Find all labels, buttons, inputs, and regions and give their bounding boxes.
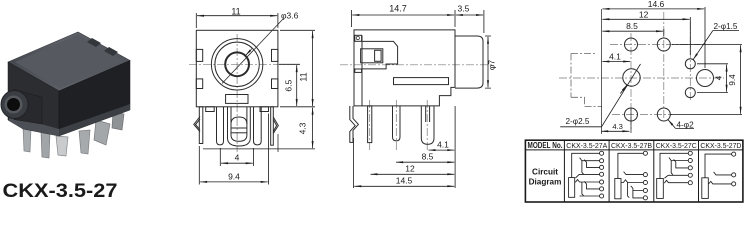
front body square xyxy=(196,30,278,107)
hole bottom-mid phi2 xyxy=(657,108,670,121)
svg-text:9.4: 9.4 xyxy=(228,171,240,181)
riser wire A xyxy=(572,153,600,177)
hole circle d3.6 xyxy=(225,52,249,76)
wavy clip xyxy=(350,106,359,142)
svg-text:CKX-3.5-27C: CKX-3.5-27C xyxy=(656,141,698,150)
wire B3 with contact xyxy=(621,180,643,183)
ext lines 9.4 dim xyxy=(670,45,742,115)
center pin tip arc xyxy=(231,117,247,124)
jack body C xyxy=(657,179,664,199)
center pin line 1 xyxy=(231,127,247,129)
centerline col2 xyxy=(663,12,665,120)
svg-text:14.5: 14.5 xyxy=(396,175,413,185)
side pin B xyxy=(393,106,401,141)
dim line 11 right xyxy=(312,31,314,106)
centerline row bottom xyxy=(612,114,672,116)
wire A5 with contact xyxy=(575,180,599,183)
circuit diagram B xyxy=(615,151,648,200)
photo base strip right xyxy=(59,104,130,136)
svg-text:CKX-3.5-27D: CKX-3.5-27D xyxy=(700,141,741,150)
right ext line xyxy=(454,106,456,188)
side view dimensions xyxy=(352,4,497,188)
top-left notch xyxy=(355,35,362,41)
riser wire B xyxy=(618,153,643,178)
svg-text:Circuit: Circuit xyxy=(532,168,558,177)
riser wire C xyxy=(660,153,688,178)
wire B5 xyxy=(633,191,643,198)
col line 3 xyxy=(653,140,655,202)
left tab upper xyxy=(196,49,202,61)
pin R xyxy=(254,107,262,145)
wire B2 with tick xyxy=(624,172,644,175)
wire A7 xyxy=(580,195,600,197)
lever C xyxy=(671,161,673,175)
center sleeve inner xyxy=(231,107,247,142)
ext lines bottom pins xyxy=(199,114,268,185)
side body outline xyxy=(354,30,455,106)
photo top edge tab 2 xyxy=(104,47,118,56)
lever A bottom xyxy=(582,182,584,196)
photo pin 3 xyxy=(56,136,68,156)
hole right-bot phi1.5 xyxy=(685,88,695,98)
front view dimensions xyxy=(196,6,315,184)
inner vertical wall xyxy=(361,36,363,106)
svg-text:2-φ1.5: 2-φ1.5 xyxy=(714,22,738,31)
svg-text:2-φ2.5: 2-φ2.5 xyxy=(566,117,590,126)
dim line 14.5 xyxy=(354,185,454,187)
circuit diagram C xyxy=(657,151,693,198)
inner contour xyxy=(362,41,398,69)
hole top-left phi2 xyxy=(625,38,638,51)
wire C2 with tick xyxy=(669,158,688,161)
svg-text:4.3: 4.3 xyxy=(298,122,308,134)
svg-text:Diagram: Diagram xyxy=(529,178,562,187)
left ref ext line xyxy=(602,9,631,134)
photo pin 2 xyxy=(41,131,50,158)
dim line phi7 xyxy=(487,37,489,88)
pin centerlines xyxy=(370,100,428,150)
svg-text:MODEL No.: MODEL No. xyxy=(528,141,563,150)
svg-text:4.1: 4.1 xyxy=(437,140,449,150)
photo barrel face xyxy=(1,91,28,119)
col line 2 xyxy=(608,140,610,202)
lever A top xyxy=(582,161,584,175)
centerline horizontal xyxy=(189,63,299,65)
hole top-mid phi2 xyxy=(657,38,670,51)
hole bottom-left phi2 xyxy=(625,108,638,121)
svg-text:4: 4 xyxy=(715,75,724,80)
hole right-top phi1.5 xyxy=(685,59,695,69)
bottom slot rect xyxy=(226,95,248,104)
photo base strip left xyxy=(9,115,59,136)
notch circle xyxy=(356,36,359,39)
left thin pin xyxy=(199,107,203,144)
dim line 4.1 xyxy=(429,149,455,151)
centerline horizontal xyxy=(340,64,492,66)
right chevron clip xyxy=(273,117,278,133)
dim line 4.3 xyxy=(312,108,314,149)
right tab lower xyxy=(272,79,278,89)
wire C3 with bracket xyxy=(674,159,689,168)
dim line 4.1 xyxy=(602,61,630,63)
terminal circles A xyxy=(600,151,604,155)
wire D2 with tick xyxy=(714,172,732,175)
center sleeve outer xyxy=(228,107,251,146)
svg-text:4.3: 4.3 xyxy=(612,122,623,131)
leader arrow a xyxy=(620,85,627,94)
svg-text:CKX-3.5-27A: CKX-3.5-27A xyxy=(566,141,607,150)
photo top edge tab 1 xyxy=(87,38,101,47)
svg-text:CKX-3.5-27: CKX-3.5-27 xyxy=(3,180,118,202)
photo pin 5 xyxy=(94,120,110,145)
svg-text:9.4: 9.4 xyxy=(728,74,737,86)
dim line 14.6 xyxy=(602,8,704,10)
side pin A xyxy=(368,106,372,143)
dim line 11 top xyxy=(197,15,277,17)
svg-text:8.5: 8.5 xyxy=(422,151,434,161)
photo body left-front face xyxy=(8,62,59,136)
dim line 4 xyxy=(726,65,728,92)
photo top ridge line xyxy=(15,35,124,88)
outline chain left xyxy=(571,54,602,107)
wire D3 with contact xyxy=(709,181,732,184)
col line 4 xyxy=(698,140,700,202)
footprint dimensions xyxy=(560,0,742,134)
svg-text:12: 12 xyxy=(639,9,649,19)
leader arrowhead xyxy=(246,49,252,56)
wire A2 with tick xyxy=(580,158,600,161)
left mid notch xyxy=(355,69,362,72)
barrel xyxy=(455,36,483,88)
svg-text:CKX-3.5-27B: CKX-3.5-27B xyxy=(611,141,652,150)
circuit diagram A xyxy=(569,151,604,198)
jack body B xyxy=(615,179,621,199)
terminal circles B xyxy=(643,151,647,155)
lever B xyxy=(628,183,630,198)
hole center phi2.5 xyxy=(623,69,640,86)
left chevron clip xyxy=(194,117,200,132)
terminal circles C xyxy=(688,151,692,155)
wire B4 with bracket xyxy=(631,186,644,191)
pin C inner lines xyxy=(426,106,430,122)
dim line 8.5 xyxy=(396,161,454,163)
svg-text:4: 4 xyxy=(235,153,240,163)
dim line 9.4 xyxy=(740,45,742,113)
svg-text:6.5: 6.5 xyxy=(284,80,294,92)
svg-text:11: 11 xyxy=(299,72,309,81)
terminal circles D xyxy=(732,152,736,156)
leader 4-phi2 xyxy=(676,127,695,129)
wire C4 with contact xyxy=(665,175,689,178)
right ext stub xyxy=(277,134,279,152)
centerline col3 xyxy=(689,22,691,100)
hang tab left xyxy=(206,107,215,112)
photo side tab xyxy=(112,112,124,130)
wire A4 with contact xyxy=(576,174,600,178)
col ext lines up xyxy=(664,7,705,68)
left tab lower xyxy=(196,79,202,89)
outer circle xyxy=(211,39,262,90)
svg-text:14.6: 14.6 xyxy=(648,0,665,9)
left ext line 14.5 xyxy=(353,138,355,188)
riser wire D xyxy=(705,154,732,178)
svg-text:φ3.6: φ3.6 xyxy=(281,11,299,21)
ext lines phi7 xyxy=(485,36,491,88)
jack body D xyxy=(702,178,709,199)
long slot xyxy=(394,78,449,85)
table outer border xyxy=(525,140,743,202)
centerline row middle xyxy=(559,77,724,79)
right tab upper xyxy=(272,49,278,61)
ext lines top xyxy=(352,10,484,33)
dim line 4 xyxy=(221,162,253,164)
pin L xyxy=(217,107,224,145)
photo barrel neck xyxy=(14,90,42,125)
circuit diagram D xyxy=(702,152,736,198)
dim line 9.4 xyxy=(200,181,268,183)
dim line 14.7 xyxy=(352,14,454,16)
jack body A xyxy=(569,178,575,198)
svg-text:11: 11 xyxy=(231,6,240,16)
svg-text:4.1: 4.1 xyxy=(609,52,621,62)
leader line for d3.6 xyxy=(222,19,283,84)
svg-text:8.5: 8.5 xyxy=(626,21,638,31)
photo pin 1 xyxy=(23,126,31,152)
ext lines right xyxy=(203,30,315,149)
ring circle xyxy=(215,42,259,86)
leader 2-phi1.5 xyxy=(713,30,739,32)
svg-text:φ7: φ7 xyxy=(487,60,497,71)
wire C5 with contact xyxy=(664,180,688,183)
hang tab right xyxy=(260,107,269,112)
header separator xyxy=(525,149,743,151)
col line 1 xyxy=(563,140,565,202)
switch box xyxy=(361,49,383,63)
wire A6 with bracket xyxy=(584,181,599,189)
svg-text:3.5: 3.5 xyxy=(457,4,469,14)
centerline row top xyxy=(610,44,700,46)
right thin pin xyxy=(271,107,274,145)
dim line 8.5 xyxy=(602,30,663,32)
centerline col1 xyxy=(630,33,632,131)
dim line 6.5 xyxy=(296,65,298,106)
ext lines 4 dim xyxy=(697,64,728,93)
photo body top face xyxy=(8,32,130,91)
dim line 3.5 xyxy=(456,14,483,16)
side pin C xyxy=(421,106,434,144)
switch box inner xyxy=(375,50,382,61)
photo body right face xyxy=(59,61,130,137)
photo pin 4 xyxy=(79,130,90,154)
svg-text:12: 12 xyxy=(405,163,415,173)
center pin line 2 xyxy=(231,132,247,134)
photo barrel ring xyxy=(5,96,23,114)
photo barrel hole xyxy=(7,98,20,111)
svg-text:14.7: 14.7 xyxy=(389,4,407,14)
ext lines top xyxy=(196,13,278,28)
hole right phi2.5 xyxy=(697,70,714,87)
dim line 12 xyxy=(371,173,455,175)
leader 2-phi2.5 xyxy=(560,64,640,127)
dim line 4.3 xyxy=(601,130,629,132)
wire A3 with bracket xyxy=(584,160,599,168)
centerline vertical xyxy=(236,34,238,152)
dim line 12 xyxy=(602,18,689,20)
